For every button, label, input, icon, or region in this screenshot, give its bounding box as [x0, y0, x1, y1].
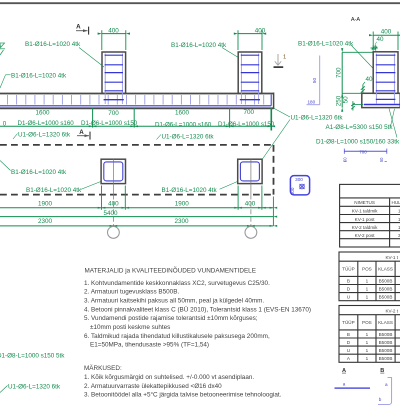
- svg-text:D1-Ø6-L=1000 s160: D1-Ø6-L=1000 s160: [155, 122, 212, 129]
- svg-text:B: B: [347, 332, 350, 337]
- svg-text:B1-Ø16-L=1020 4tk: B1-Ø16-L=1020 4tk: [11, 73, 67, 80]
- svg-text:B1-Ø16-L=1020 4tk: B1-Ø16-L=1020 4tk: [26, 187, 82, 194]
- svg-text:KV-2 t: KV-2 t: [385, 309, 398, 314]
- svg-text:1900: 1900: [38, 201, 53, 208]
- svg-text:400: 400: [108, 201, 119, 208]
- svg-text:A1-Ø8-L=5300 s150 5tk: A1-Ø8-L=5300 s150 5tk: [326, 124, 394, 131]
- svg-text:b: b: [379, 397, 382, 402]
- svg-text:400: 400: [245, 201, 256, 208]
- leader U1 right to plan post P2: [262, 120, 290, 160]
- svg-text:U: U: [347, 295, 350, 300]
- svg-text:KV-1 post: KV-1 post: [355, 217, 376, 222]
- bar shape A (straight): [335, 387, 371, 389]
- section dim 700: [341, 52, 343, 93]
- svg-text:300: 300: [295, 177, 303, 182]
- svg-text:6. Taldmikud rajada tihendatud: 6. Taldmikud rajada tihendatud killustik…: [84, 333, 270, 340]
- svg-text:300: 300: [290, 187, 295, 195]
- svg-text:40: 40: [365, 76, 373, 83]
- svg-text:2. Armatuuri tugevusklass B500: 2. Armatuuri tugevusklass B500B.: [84, 289, 179, 296]
- thick extension at beam right end: [270, 108, 272, 131]
- svg-text:U1-Ø6-L=1320 6tk: U1-Ø6-L=1320 6tk: [8, 383, 61, 390]
- svg-text:A-A: A-A: [351, 17, 361, 23]
- svg-text:1900: 1900: [175, 201, 190, 208]
- level/datum marker 1: [277, 54, 279, 65]
- elevation beam ticks (stirrup marks): [8, 95, 264, 105]
- svg-text:1. Kõik kõrgusmärgid on suhtel: 1. Kõik kõrgusmärgid on suhtelised. +/-0…: [84, 374, 254, 381]
- plan dim line row1: [0, 207, 273, 209]
- svg-text:KV-2 post: KV-2 post: [355, 233, 376, 238]
- svg-text:MATERJALID ja KVALITEEDINÕUDED: MATERJALID ja KVALITEEDINÕUDED VUNDAMENT…: [85, 265, 256, 274]
- svg-text:1: 1: [366, 340, 369, 345]
- svg-text:KV-2 taldmik: KV-2 taldmik: [352, 225, 378, 230]
- svg-text:D1-Ø8-L=1000 s150/160 33tk: D1-Ø8-L=1000 s150/160 33tk: [316, 139, 400, 146]
- section U1 stirrup bottom: [376, 98, 396, 100]
- elevation beam right-end inner bar: [270, 95, 272, 106]
- svg-text:U1-Ø6-L=1320 6tk: U1-Ø6-L=1320 6tk: [291, 115, 344, 122]
- grid bubble 2: [245, 227, 257, 239]
- svg-text:400: 400: [255, 27, 266, 34]
- svg-text:A: A: [76, 23, 81, 30]
- svg-text:B500B: B500B: [379, 340, 393, 345]
- plan post P2: [238, 159, 262, 183]
- dimension 400 over post P1: [102, 33, 126, 35]
- svg-text:B: B: [380, 368, 384, 374]
- svg-text:a: a: [343, 381, 346, 386]
- svg-text:700: 700: [359, 150, 367, 155]
- svg-text:TÜÜP: TÜÜP: [342, 266, 355, 272]
- svg-text:50: 50: [312, 78, 317, 84]
- section post: [373, 52, 398, 94]
- svg-text:KLASS: KLASS: [378, 267, 393, 272]
- section dim 250: [341, 93, 343, 107]
- base plate detail 300x300: [290, 176, 309, 195]
- dimension line under beam: [0, 125, 274, 127]
- svg-text:NIMETUS: NIMETUS: [354, 200, 375, 205]
- svg-text:KV-1 t: KV-1 t: [385, 255, 398, 260]
- svg-text:2300: 2300: [174, 218, 189, 225]
- svg-text:4. Betooni pinnakvaliteet klas: 4. Betooni pinnakvaliteet klass C (BÜ 20…: [84, 305, 311, 313]
- svg-text:1: 1: [366, 287, 369, 292]
- svg-text:3. Betoonitöödel alla +5°C jär: 3. Betoonitöödel alla +5°C järgida talvi…: [84, 391, 282, 399]
- svg-text:D1-Ø6-L=1000 s150: D1-Ø6-L=1000 s150: [81, 120, 138, 127]
- svg-text:5. Vundamendi postide rajamise: 5. Vundamendi postide rajamise tolerants…: [84, 315, 258, 322]
- svg-text:180: 180: [308, 99, 316, 104]
- svg-text:1: 1: [366, 356, 369, 361]
- plan dim line row3 (2300): [0, 225, 273, 227]
- svg-text:2300: 2300: [38, 218, 53, 225]
- dimension 400 over post P2: [238, 33, 262, 35]
- svg-text:U: U: [347, 348, 350, 353]
- svg-text:D1-Ø8-L=1000 s150 5tk: D1-Ø8-L=1000 s150 5tk: [0, 352, 65, 359]
- table 1 (quantities): [340, 184, 400, 247]
- svg-text:5400: 5400: [103, 210, 118, 217]
- svg-text:±10mm posti keskme suhtes: ±10mm posti keskme suhtes: [90, 324, 170, 331]
- svg-text:1: 1: [366, 332, 369, 337]
- svg-text:KLASS: KLASS: [378, 320, 393, 325]
- section footing bottom rebar: [364, 104, 400, 106]
- blue dim 700 under section: [344, 150, 387, 152]
- table 3 (KV-2 rebar): [339, 306, 400, 363]
- svg-text:E1=50MPa, tihendusaste >95% (T: E1=50MPa, tihendusaste >95% (TF=1,54): [90, 342, 209, 349]
- elevation beam outline: [0, 93, 274, 95]
- svg-text:B1-Ø16-L=1020 4tk: B1-Ø16-L=1020 4tk: [25, 41, 81, 48]
- svg-text:B1-Ø16-L=1020 4tk: B1-Ø16-L=1020 4tk: [171, 42, 227, 49]
- svg-text:40: 40: [376, 36, 384, 43]
- svg-text:a: a: [385, 382, 388, 387]
- svg-text:A: A: [347, 356, 351, 361]
- svg-text:HULK: HULK: [392, 200, 400, 205]
- svg-text:A: A: [342, 368, 346, 374]
- plan post P1: [101, 159, 125, 183]
- svg-text:50: 50: [379, 157, 384, 162]
- svg-text:3. Armatuuri kaitsekihi paksus: 3. Armatuuri kaitsekihi paksus all 50mm,…: [84, 298, 264, 305]
- svg-text:B500B: B500B: [379, 348, 393, 353]
- elevation post P2: [238, 52, 262, 93]
- svg-text:B500B: B500B: [379, 287, 393, 292]
- svg-text:B500B: B500B: [379, 278, 393, 283]
- section dim 50: [352, 101, 354, 110]
- svg-text:B500B: B500B: [379, 295, 393, 300]
- svg-text:1: 1: [366, 278, 369, 283]
- svg-text:1600: 1600: [35, 110, 50, 117]
- svg-text:2. Armatuurvarraste ülekattepi: 2. Armatuurvarraste ülekattepikkused <Ø1…: [84, 383, 222, 390]
- svg-text:1600: 1600: [175, 110, 190, 117]
- svg-text:A: A: [79, 129, 84, 136]
- svg-text:1: 1: [366, 295, 369, 300]
- svg-text:700: 700: [335, 67, 342, 78]
- level symbol (cut at left edge): [0, 43, 5, 55]
- svg-text:D1-Ø6-L=1000 s160: D1-Ø6-L=1000 s160: [18, 120, 75, 127]
- elevation beam bottom rebar (blue): [0, 105, 271, 107]
- svg-text:B1-Ø16-L=1020 4tk: B1-Ø16-L=1020 4tk: [298, 40, 354, 47]
- section dim 400 top: [373, 34, 400, 36]
- svg-text:U1-Ø6-L=1320 6tk: U1-Ø6-L=1320 6tk: [18, 132, 71, 139]
- svg-text:700: 700: [108, 110, 119, 117]
- svg-text:400: 400: [381, 29, 392, 36]
- svg-text:50: 50: [342, 96, 349, 104]
- dimension band separators: [92, 108, 94, 128]
- svg-text:TÜÜP: TÜÜP: [342, 319, 355, 325]
- svg-text:0: 0: [3, 120, 7, 127]
- plan outline dashed: [0, 144, 274, 146]
- svg-text:1. Kohtvundamentide keskkonnak: 1. Kohtvundamentide keskkonnaklass XC2, …: [84, 280, 270, 287]
- table 2 (KV-1 rebar): [339, 252, 400, 301]
- svg-text:MÄRKUSED:: MÄRKUSED:: [84, 364, 122, 372]
- svg-text:D1-Ø6-L=1000 s150: D1-Ø6-L=1000 s150: [218, 121, 275, 128]
- svg-text:B500B: B500B: [379, 356, 393, 361]
- svg-text:B: B: [347, 278, 350, 283]
- svg-text:B1-Ø16-L=1020 4tk: B1-Ø16-L=1020 4tk: [162, 187, 218, 194]
- svg-text:B1-Ø16-L=1020 4tk: B1-Ø16-L=1020 4tk: [11, 169, 67, 176]
- svg-text:1: 1: [366, 348, 369, 353]
- svg-text:1: 1: [283, 54, 286, 60]
- plan dim extensions: [101, 186, 103, 210]
- svg-text:POS: POS: [362, 320, 372, 325]
- svg-text:D: D: [347, 287, 351, 292]
- svg-text:B500B: B500B: [379, 332, 393, 337]
- svg-text:U1-Ø6-L=1320 6tk: U1-Ø6-L=1320 6tk: [162, 133, 215, 140]
- svg-text:700: 700: [243, 109, 254, 116]
- svg-text:400: 400: [108, 27, 119, 34]
- svg-text:D: D: [347, 340, 351, 345]
- drawing frame top border: [0, 2, 400, 4]
- grid bubble 1: [108, 227, 120, 239]
- svg-text:POS: POS: [362, 267, 372, 272]
- blue aux line with 50/180: [319, 56, 321, 105]
- svg-text:KV-1 taldmik: KV-1 taldmik: [352, 209, 378, 214]
- plan dim line row2 (5400): [0, 216, 273, 218]
- elevation post P1: [102, 52, 126, 93]
- section footing outline: [362, 93, 400, 107]
- bar shape B (L-bar): [378, 378, 392, 405]
